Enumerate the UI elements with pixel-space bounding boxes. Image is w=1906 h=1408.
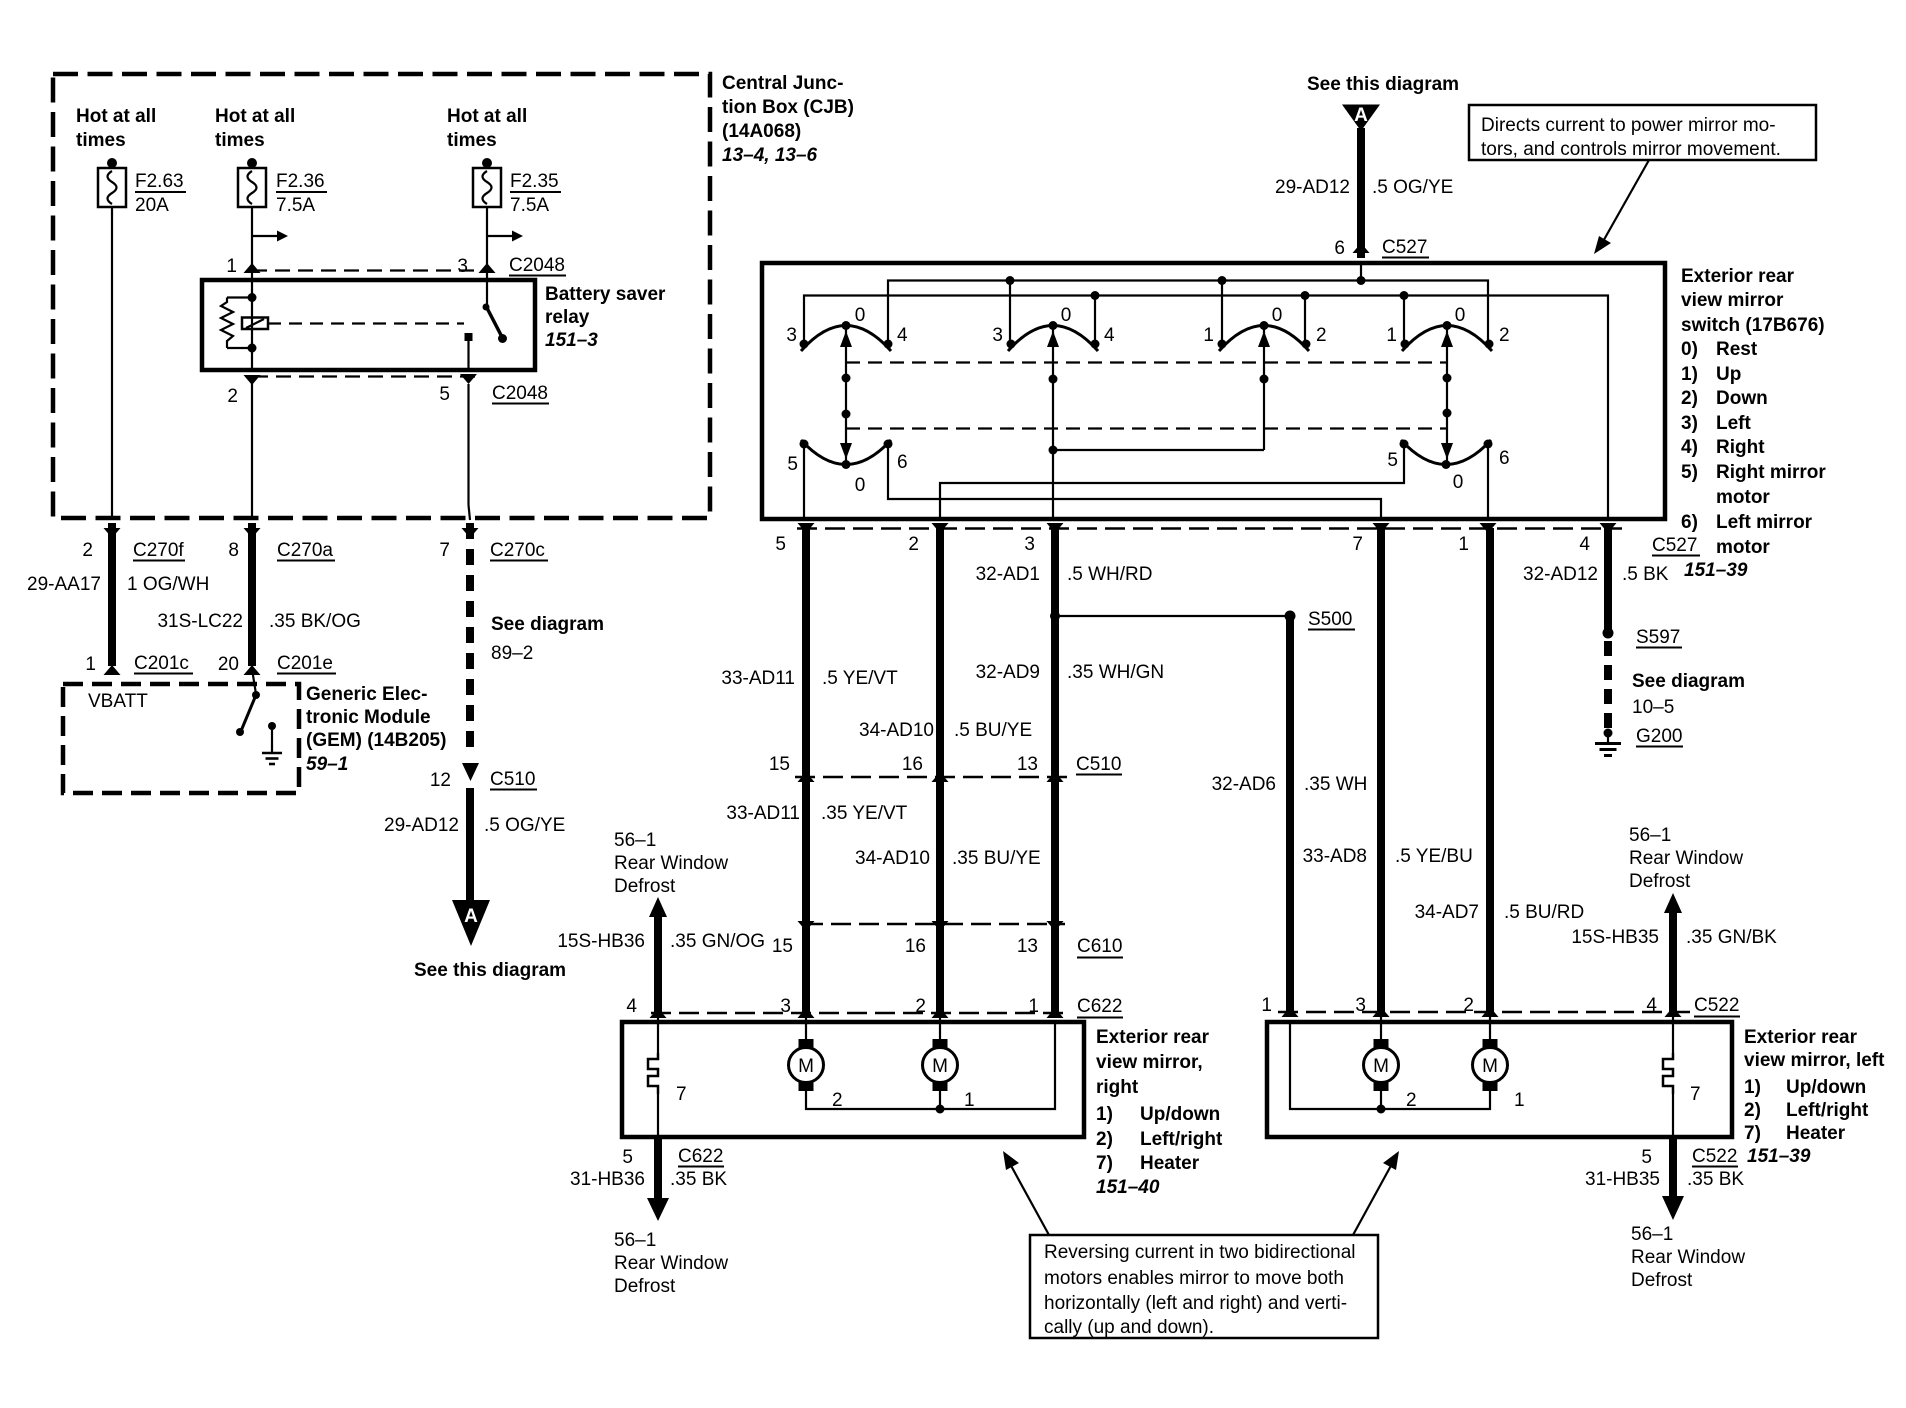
svg-text:C527: C527 <box>1652 535 1697 556</box>
svg-text:1: 1 <box>1203 325 1214 346</box>
relay switch contact and blade (pins 3-5) <box>465 280 508 370</box>
wire S6 pin 6 to connector 1 <box>1487 444 1489 519</box>
off-page connector A (bottom) <box>414 900 566 981</box>
svg-text:13: 13 <box>1017 754 1038 775</box>
splice S500 <box>1050 609 1355 630</box>
svg-text:F2.35: F2.35 <box>510 171 559 192</box>
svg-text:151–40: 151–40 <box>1096 1177 1160 1198</box>
svg-text:C610: C610 <box>1077 936 1122 957</box>
svg-text:S597: S597 <box>1636 627 1680 648</box>
svg-text:32-AD6: 32-AD6 <box>1212 774 1276 795</box>
wire 32-AD1 .5 WH/RD (C527-3 to S500) <box>976 528 1153 777</box>
svg-text:1: 1 <box>1261 995 1272 1016</box>
svg-text:3: 3 <box>1024 534 1035 555</box>
right mirror common return wire to C622 pin 1 <box>806 1022 1055 1114</box>
svg-text:31-HB35: 31-HB35 <box>1585 1169 1660 1190</box>
svg-text:right: right <box>1096 1077 1139 1098</box>
svg-text:7: 7 <box>676 1084 687 1105</box>
svg-text:56–1: 56–1 <box>1629 825 1671 846</box>
label VBATT <box>88 691 148 712</box>
GEM internal switch <box>236 669 260 736</box>
svg-text:C522: C522 <box>1692 1146 1737 1167</box>
right mirror motor M1 (up/down) <box>789 1013 843 1111</box>
dashed wire S597 to G200 <box>1608 641 1745 729</box>
wire bus B to switch S4 pin 1 <box>1403 296 1405 345</box>
label 56-1 Rear Window Defrost (right mirror return) <box>614 1230 728 1297</box>
connector C201e <box>218 653 336 675</box>
svg-text:4: 4 <box>626 996 637 1017</box>
wires C610 to C622 stubs <box>806 924 1055 1013</box>
wire 32-AD12 .5 BK (C527-4 to S597) <box>1523 528 1748 630</box>
right mirror motor M2 (left/right) <box>923 1013 975 1111</box>
fuse F2.63 20A <box>98 158 186 216</box>
fuse F2.35 7.5A <box>473 158 561 216</box>
svg-text:view mirror, left: view mirror, left <box>1744 1050 1885 1071</box>
svg-text:Rear Window: Rear Window <box>614 1253 728 1274</box>
svg-text:15S-HB36: 15S-HB36 <box>557 931 645 952</box>
svg-text:C270a: C270a <box>277 540 333 561</box>
svg-text:2): 2) <box>1681 388 1698 409</box>
connector C2048 bottom (relay pins 2,5) <box>227 374 549 407</box>
GEM internal ground <box>262 722 282 764</box>
bus line A (feed bus) <box>888 276 1488 344</box>
svg-text:(GEM) (14B205): (GEM) (14B205) <box>306 730 446 751</box>
svg-text:2: 2 <box>908 534 919 555</box>
svg-text:Left/right: Left/right <box>1786 1100 1869 1121</box>
svg-text:7: 7 <box>1690 1084 1701 1105</box>
svg-text:151–39: 151–39 <box>1684 560 1748 581</box>
connector C527 row <box>775 523 1700 556</box>
svg-text:.5 YE/BU: .5 YE/BU <box>1395 846 1473 867</box>
wire 15S-HB36 .35 GN/OG from defrost <box>557 897 765 1013</box>
svg-text:1: 1 <box>1028 996 1039 1017</box>
switch S2 wiper (to connector 3) <box>1047 326 1059 520</box>
svg-text:view mirror: view mirror <box>1681 290 1784 311</box>
wire 29-AD12 .5 OG/YE (to off-page A) <box>384 788 565 902</box>
svg-text:C2048: C2048 <box>509 255 565 276</box>
svg-text:29-AD12: 29-AD12 <box>1275 177 1350 198</box>
svg-text:C510: C510 <box>1076 754 1121 775</box>
svg-text:Exterior rear: Exterior rear <box>1744 1027 1858 1048</box>
wire 33-AD11 .5 YE/VT (C527-5 to C510-15) <box>721 528 898 777</box>
svg-text:33-AD8: 33-AD8 <box>1303 846 1367 867</box>
svg-text:Hot at all: Hot at all <box>447 106 527 127</box>
label: Hot at all times (fuse F2.63) <box>76 106 156 151</box>
svg-text:Directs current to power mirro: Directs current to power mirror mo- <box>1481 115 1776 136</box>
svg-text:Right: Right <box>1716 437 1765 458</box>
label: Hot at all times (fuse F2.36) <box>215 106 295 151</box>
svg-text:1: 1 <box>964 1090 975 1111</box>
svg-text:151–3: 151–3 <box>545 330 598 351</box>
connector C522 pin 5 (heater return) 151-39 <box>1641 1146 1810 1168</box>
bus line B (return bus to C527 pin 4) <box>804 291 1608 519</box>
svg-text:.5 YE/VT: .5 YE/VT <box>822 668 898 689</box>
svg-text:3: 3 <box>780 996 791 1017</box>
switch S1 wiper <box>840 326 852 465</box>
switch S2 contacts (pins 3-4) <box>992 305 1115 351</box>
svg-text:Up: Up <box>1716 364 1741 385</box>
connector C622 pin 5 (heater return) <box>622 1146 724 1168</box>
svg-text:Generic Elec-: Generic Elec- <box>306 684 427 705</box>
svg-text:3: 3 <box>786 325 797 346</box>
svg-text:Hot at all: Hot at all <box>76 106 156 127</box>
wire fuse F2.36 to relay pin 1 <box>251 207 253 281</box>
svg-text:89–2: 89–2 <box>491 643 533 664</box>
svg-text:.35 BK: .35 BK <box>670 1169 727 1190</box>
svg-text:7.5A: 7.5A <box>276 195 315 216</box>
svg-text:0: 0 <box>1455 305 1466 326</box>
svg-text:.35 YE/VT: .35 YE/VT <box>821 803 908 824</box>
svg-text:5: 5 <box>439 384 450 405</box>
left mirror common return wire to C522 pin 1 <box>1290 1022 1490 1114</box>
svg-text:Exterior rear: Exterior rear <box>1681 266 1795 287</box>
svg-text:6: 6 <box>897 452 908 473</box>
svg-text:4: 4 <box>1104 325 1115 346</box>
mechanical linkage dashed row 2 <box>846 427 1447 429</box>
svg-text:Up/down: Up/down <box>1140 1104 1220 1125</box>
off-page connector A (top) <box>1307 74 1459 131</box>
wire bus B to switch S2 pin 4 <box>1094 296 1096 345</box>
svg-text:56–1: 56–1 <box>614 1230 656 1251</box>
svg-text:2: 2 <box>832 1090 843 1111</box>
svg-text:Rear Window: Rear Window <box>1631 1247 1745 1268</box>
link wire S2 wiper to S3 wiper <box>1053 449 1264 451</box>
svg-text:6): 6) <box>1681 512 1698 533</box>
svg-text:15S-HB35: 15S-HB35 <box>1571 927 1659 948</box>
wire 34-AD7 .5 BU/RD (C527-1 to C522-2) <box>1415 528 1585 1012</box>
svg-text:horizontally (left and right): horizontally (left and right) and verti- <box>1044 1293 1347 1314</box>
Central Junction Box (CJB) dashed enclosure <box>53 74 710 518</box>
svg-text:2: 2 <box>1499 325 1510 346</box>
svg-text:4): 4) <box>1681 437 1698 458</box>
svg-text:Rear Window: Rear Window <box>614 853 728 874</box>
label: Exterior rear view mirror switch (17B676) <box>1681 266 1825 336</box>
svg-text:4: 4 <box>897 325 908 346</box>
wire relay pin 5 to CJB exit <box>469 384 471 520</box>
connector C527 pin 6 <box>1334 237 1429 259</box>
svg-text:20: 20 <box>218 654 239 675</box>
svg-text:2): 2) <box>1744 1100 1761 1121</box>
connector C510 pin 12 <box>430 763 537 791</box>
svg-text:2: 2 <box>82 540 93 561</box>
label: Exterior rear view mirror right + legend <box>1096 1027 1223 1198</box>
svg-text:switch (17B676): switch (17B676) <box>1681 315 1825 336</box>
svg-text:0): 0) <box>1681 339 1698 360</box>
svg-text:56–1: 56–1 <box>1631 1224 1673 1245</box>
arrow from note to switch box <box>1594 160 1649 254</box>
svg-text:view mirror,: view mirror, <box>1096 1052 1203 1073</box>
wire 15S-HB35 .35 GN/BK from defrost <box>1571 893 1777 1012</box>
svg-text:.5 BU/YE: .5 BU/YE <box>954 720 1032 741</box>
left mirror motor M3 (up/down) <box>1364 1012 1417 1111</box>
svg-text:29-AD12: 29-AD12 <box>384 815 459 836</box>
svg-text:.35 WH/GN: .35 WH/GN <box>1067 662 1164 683</box>
svg-text:times: times <box>447 130 497 151</box>
svg-text:13–4, 13–6: 13–4, 13–6 <box>722 145 818 166</box>
connector C522 row <box>1261 995 1740 1017</box>
svg-text:Defrost: Defrost <box>1631 1270 1693 1291</box>
svg-text:32-AD1: 32-AD1 <box>976 564 1040 585</box>
switch S1 contacts (pins 3-4, left/right) <box>786 305 908 351</box>
svg-text:S500: S500 <box>1308 609 1352 630</box>
svg-text:20A: 20A <box>135 195 169 216</box>
svg-text:Defrost: Defrost <box>614 1276 676 1297</box>
label 56-1 Rear Window Defrost (right mirror feed) <box>614 830 728 897</box>
svg-text:(14A068): (14A068) <box>722 121 801 142</box>
svg-text:.35 BK/OG: .35 BK/OG <box>269 611 361 632</box>
wire 33-AD11 .35 YE/VT (C510-15 to C610-15) <box>726 777 907 924</box>
svg-text:0: 0 <box>855 305 866 326</box>
power feed wire into switch box <box>1360 263 1362 281</box>
svg-text:.35 GN/BK: .35 GN/BK <box>1686 927 1777 948</box>
svg-text:.5 OG/YE: .5 OG/YE <box>1372 177 1453 198</box>
label: Hot at all times (fuse F2.35) <box>447 106 527 151</box>
svg-text:C527: C527 <box>1382 237 1427 258</box>
svg-text:4: 4 <box>1646 995 1657 1016</box>
arrow from note to right mirror box <box>1003 1151 1049 1235</box>
connector C610 row <box>772 921 1123 958</box>
svg-text:C201c: C201c <box>134 653 189 674</box>
wire 32-AD9 .35 WH/GN label <box>976 662 1165 683</box>
connector C201c <box>85 653 193 675</box>
wire 31-HB36 .35 BK to defrost ground <box>570 1137 727 1221</box>
svg-text:cally (up and down).: cally (up and down). <box>1044 1317 1214 1338</box>
label Generic Electronic Module (GEM) (14B205) 59-1 <box>306 684 446 775</box>
svg-text:Exterior rear: Exterior rear <box>1096 1027 1210 1048</box>
Generic Electronic Module (GEM) dashed box <box>63 684 299 793</box>
wire 29-AD12 .5 OG/YE (switch feed) <box>1275 128 1453 258</box>
switch S3 contacts (pins 1-2, up/down) <box>1203 305 1326 351</box>
svg-text:Rest: Rest <box>1716 339 1758 360</box>
svg-text:0: 0 <box>1272 305 1283 326</box>
svg-text:34-AD7: 34-AD7 <box>1415 902 1479 923</box>
svg-text:0: 0 <box>855 475 866 496</box>
svg-text:C201e: C201e <box>277 653 333 674</box>
wire bus B to switch S3 pin 2 <box>1304 296 1306 345</box>
svg-text:.35 GN/OG: .35 GN/OG <box>670 931 765 952</box>
svg-text:Left/right: Left/right <box>1140 1129 1223 1150</box>
svg-text:times: times <box>215 130 265 151</box>
wire 29-AA17 1 OG/WH <box>27 523 209 666</box>
svg-text:Defrost: Defrost <box>614 876 676 897</box>
svg-text:See diagram: See diagram <box>491 614 604 635</box>
svg-text:.5 BK: .5 BK <box>1622 564 1669 585</box>
svg-text:motor: motor <box>1716 487 1770 508</box>
svg-text:.35 WH: .35 WH <box>1304 774 1367 795</box>
svg-text:C2048: C2048 <box>492 383 548 404</box>
svg-text:3): 3) <box>1681 413 1698 434</box>
mechanical linkage dashed row 1 <box>846 361 1447 363</box>
svg-text:C622: C622 <box>1077 996 1122 1017</box>
wire to diagram 89-2 (dashed heavy) <box>470 523 604 757</box>
svg-text:.5 WH/RD: .5 WH/RD <box>1067 564 1153 585</box>
svg-text:34-AD10: 34-AD10 <box>855 848 930 869</box>
wire bus A to switch S2 pin 3 <box>1009 281 1011 345</box>
note: Directs current to power mirror motors <box>1469 105 1816 160</box>
ground G200 <box>1595 726 1683 756</box>
svg-text:12: 12 <box>430 770 451 791</box>
switch S4 contacts (pins 1-2) <box>1386 305 1509 351</box>
svg-text:0: 0 <box>1061 305 1072 326</box>
svg-text:13: 13 <box>1017 936 1038 957</box>
svg-text:motors enables mirror to move: motors enables mirror to move both <box>1044 1268 1344 1289</box>
wire C510-13 to C610-13 <box>1051 777 1059 924</box>
svg-text:2: 2 <box>1463 995 1474 1016</box>
switch S6 contacts (pins 5-6, left motor select) <box>1387 440 1509 494</box>
relay coil wire (pin 1 to pin 2) <box>248 280 257 370</box>
svg-text:C270f: C270f <box>133 540 184 561</box>
relay actuation dashed link <box>268 322 464 324</box>
wire bus A to switch S3 pin 1 <box>1221 281 1223 345</box>
svg-text:16: 16 <box>905 936 926 957</box>
svg-text:32-AD12: 32-AD12 <box>1523 564 1598 585</box>
svg-text:32-AD9: 32-AD9 <box>976 662 1040 683</box>
svg-text:5: 5 <box>622 1147 633 1168</box>
svg-text:A: A <box>464 906 478 927</box>
svg-text:7: 7 <box>1352 534 1363 555</box>
svg-text:29-AA17: 29-AA17 <box>27 574 101 595</box>
svg-text:16: 16 <box>902 754 923 775</box>
svg-text:31-HB36: 31-HB36 <box>570 1169 645 1190</box>
wire S5 pin 6 to connector 7 <box>888 444 1381 519</box>
svg-text:Down: Down <box>1716 388 1768 409</box>
battery saver relay box <box>202 280 535 370</box>
relay coil element <box>242 318 268 330</box>
svg-text:2): 2) <box>1096 1129 1113 1150</box>
switch S4 wiper <box>1441 326 1453 465</box>
svg-text:1): 1) <box>1096 1104 1113 1125</box>
svg-text:59–1: 59–1 <box>306 754 348 775</box>
svg-text:Battery saver: Battery saver <box>545 284 666 305</box>
wire fuse F2.35 to relay pin 3 <box>486 207 488 281</box>
svg-text:.5 OG/YE: .5 OG/YE <box>484 815 565 836</box>
svg-text:5: 5 <box>787 454 798 475</box>
svg-text:C270c: C270c <box>490 540 545 561</box>
svg-text:2: 2 <box>1406 1090 1417 1111</box>
arrow from note to left mirror box <box>1353 1151 1399 1235</box>
exterior rear view mirror switch box <box>762 263 1665 519</box>
svg-text:4: 4 <box>1579 534 1590 555</box>
wire fuse F2.63 to connector C270f <box>111 207 113 520</box>
svg-text:Reversing current in two bidir: Reversing current in two bidirectional <box>1044 1242 1356 1263</box>
svg-text:Left: Left <box>1716 413 1752 434</box>
wire 34-AD10 .35 BU/YE (C510-16 to C610-16) <box>855 777 1041 924</box>
svg-text:tion Box (CJB): tion Box (CJB) <box>722 97 854 118</box>
svg-text:F2.63: F2.63 <box>135 171 184 192</box>
exterior rear view mirror right box <box>622 1022 1084 1137</box>
svg-text:7: 7 <box>439 540 450 561</box>
svg-text:Heater: Heater <box>1786 1123 1846 1144</box>
svg-text:Left mirror: Left mirror <box>1716 512 1813 533</box>
svg-text:times: times <box>76 130 126 151</box>
svg-text:relay: relay <box>545 307 590 328</box>
svg-text:1: 1 <box>1458 534 1469 555</box>
svg-text:7.5A: 7.5A <box>510 195 549 216</box>
svg-text:Rear Window: Rear Window <box>1629 848 1743 869</box>
wire 31-HB35 .35 BK to defrost ground <box>1585 1137 1744 1220</box>
svg-text:.35 BU/YE: .35 BU/YE <box>952 848 1041 869</box>
svg-text:5: 5 <box>775 534 786 555</box>
wire S5 pin 5 to connector 5 <box>803 444 805 519</box>
svg-text:151–39: 151–39 <box>1747 1146 1811 1167</box>
svg-text:tronic Module: tronic Module <box>306 707 431 728</box>
connector C510 row <box>769 754 1122 782</box>
svg-text:10–5: 10–5 <box>1632 697 1674 718</box>
wire connector 2 to S6 pin 5 <box>940 444 1404 519</box>
label: Exterior rear view mirror left + legend <box>1744 1027 1885 1144</box>
left mirror motor M4 (left/right) <box>1473 1012 1525 1111</box>
svg-text:Central Junc-: Central Junc- <box>722 73 843 94</box>
svg-text:1 OG/WH: 1 OG/WH <box>127 574 209 595</box>
svg-text:1: 1 <box>1514 1090 1525 1111</box>
svg-text:VBATT: VBATT <box>88 691 148 712</box>
exterior rear view mirror left box <box>1267 1022 1732 1137</box>
label 56-1 Rear Window Defrost (left mirror return) <box>1631 1224 1745 1291</box>
relay coil resistor <box>221 298 252 349</box>
left mirror heater element pin 7 <box>1663 1012 1701 1137</box>
svg-text:See this diagram: See this diagram <box>1307 74 1459 95</box>
svg-text:2: 2 <box>227 386 238 407</box>
svg-text:7): 7) <box>1096 1153 1113 1174</box>
svg-text:5): 5) <box>1681 462 1698 483</box>
svg-text:Up/down: Up/down <box>1786 1077 1866 1098</box>
svg-text:1): 1) <box>1681 364 1698 385</box>
label: Central Junction Box (CJB) (14A068) 13-4, 13-6 <box>722 73 854 166</box>
connector C270f <box>82 528 185 561</box>
svg-text:tors, and controls mirror move: tors, and controls mirror movement. <box>1481 139 1781 160</box>
svg-text:1: 1 <box>226 256 237 277</box>
svg-text:Hot at all: Hot at all <box>215 106 295 127</box>
svg-text:Heater: Heater <box>1140 1153 1200 1174</box>
svg-text:See this diagram: See this diagram <box>414 960 566 981</box>
svg-text:3: 3 <box>1355 995 1366 1016</box>
svg-text:1): 1) <box>1744 1077 1761 1098</box>
wire relay pin 2 to CJB exit <box>251 377 253 520</box>
svg-text:15: 15 <box>769 754 790 775</box>
branch arrow on fuse F2.35 feed <box>487 231 523 242</box>
svg-text:34-AD10: 34-AD10 <box>859 720 934 741</box>
splice S597 <box>1603 627 1683 648</box>
svg-text:1: 1 <box>1386 325 1397 346</box>
connector C270c <box>439 528 548 561</box>
label 56-1 Rear Window Defrost (left mirror feed) <box>1629 825 1743 892</box>
switch S5 contacts (pins 5-6, right motor select) <box>787 440 907 497</box>
svg-text:2: 2 <box>915 996 926 1017</box>
svg-text:7): 7) <box>1744 1123 1761 1144</box>
svg-text:.35 BK: .35 BK <box>1687 1169 1744 1190</box>
wire 34-AD10 .5 BU/YE (C527-2 to C510-16) <box>859 528 1032 777</box>
svg-text:0: 0 <box>1453 472 1464 493</box>
svg-text:Right mirror: Right mirror <box>1716 462 1826 483</box>
connector C622 row <box>626 996 1123 1018</box>
svg-text:Defrost: Defrost <box>1629 871 1691 892</box>
svg-text:5: 5 <box>1641 1147 1652 1168</box>
svg-text:3: 3 <box>457 256 468 277</box>
wire 32-AD6 .35 WH (S500 to C522-1) <box>1212 616 1368 1012</box>
svg-text:33-AD11: 33-AD11 <box>726 803 800 824</box>
svg-text:F2.36: F2.36 <box>276 171 325 192</box>
svg-text:6: 6 <box>1334 238 1345 259</box>
wire 31S-LC22 .35 BK/OG <box>157 523 360 666</box>
svg-text:G200: G200 <box>1636 726 1682 747</box>
connector C2048 top (relay pins 1,3) <box>226 255 566 277</box>
svg-text:15: 15 <box>772 936 793 957</box>
svg-text:C622: C622 <box>678 1146 723 1167</box>
note: Reversing current in two bidirectional motors <box>1030 1235 1378 1338</box>
svg-text:C510: C510 <box>490 769 535 790</box>
branch arrow on fuse F2.36 feed <box>252 231 288 242</box>
svg-text:56–1: 56–1 <box>614 830 656 851</box>
